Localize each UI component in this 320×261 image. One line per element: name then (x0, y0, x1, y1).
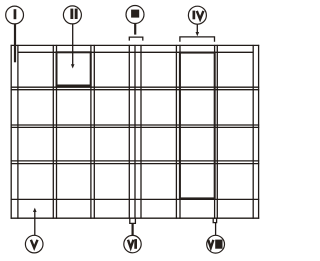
wire: inner bottom line h9 (11, 198, 260, 200)
label IV circle (188, 6, 206, 24)
node IV: highlighted column rectangle (180, 53, 215, 199)
node VII bracket below grid (213, 218, 216, 222)
wire: column separator pair v6 (93, 45, 95, 219)
wire: row separator pair h7 (11, 160, 260, 162)
wire: column separator pair v4 (56, 45, 58, 219)
node IV bracket (180, 37, 215, 42)
wire: leader from V with up arrow (33, 208, 37, 236)
wire: row separator pair h8 (11, 163, 260, 165)
label III circle (filled square numeral) (126, 6, 144, 24)
wire: row separator pair h5 (11, 124, 260, 126)
wire: inner top edge h2 (18, 51, 253, 53)
wire: column separator pair v12 (214, 45, 216, 219)
label I circle (6, 6, 24, 24)
label VI circle (124, 235, 141, 252)
wire: outer left edge v1 (10, 45, 12, 219)
wire: leader from III (134, 24, 136, 35)
label II circle (63, 6, 81, 24)
wire: outer right edge v15 (258, 45, 260, 219)
label V circle (25, 235, 43, 253)
wire: inner left edge v2 (17, 45, 19, 219)
wire: column separator pair v10 (175, 45, 177, 219)
wire: inner right edge v14 (252, 45, 254, 219)
node II: highlighted cell rectangle (57, 52, 91, 85)
wire: outer top edge h1 (11, 44, 260, 46)
wire: leader from I (14, 24, 16, 62)
wire: busbar column line v8 (134, 45, 136, 218)
wire: busbar column line v7 (128, 45, 130, 218)
wire: row separator pair h4 (11, 89, 260, 91)
label VII circle (207, 235, 225, 253)
wire: row separator pair h3 (11, 86, 260, 88)
node VI bracket below grid (130, 218, 136, 223)
node III bracket (129, 37, 143, 41)
wire: busbar column line v9 (140, 45, 142, 218)
wire: leader from II with arrow (71, 24, 75, 69)
wire: leader from VI (132, 223, 134, 235)
wire: leader from IV with arrow (196, 24, 200, 36)
wire: outer bottom edge h10 (11, 217, 260, 219)
wire: row separator pair h6 (11, 126, 260, 128)
wire: column separator pair v3 (52, 45, 54, 219)
wire: leader from VII (215, 223, 217, 236)
wire: column separator pair v5 (90, 45, 92, 219)
wire: column separator pair v13 (216, 45, 218, 219)
wire: column separator pair v11 (179, 45, 181, 219)
